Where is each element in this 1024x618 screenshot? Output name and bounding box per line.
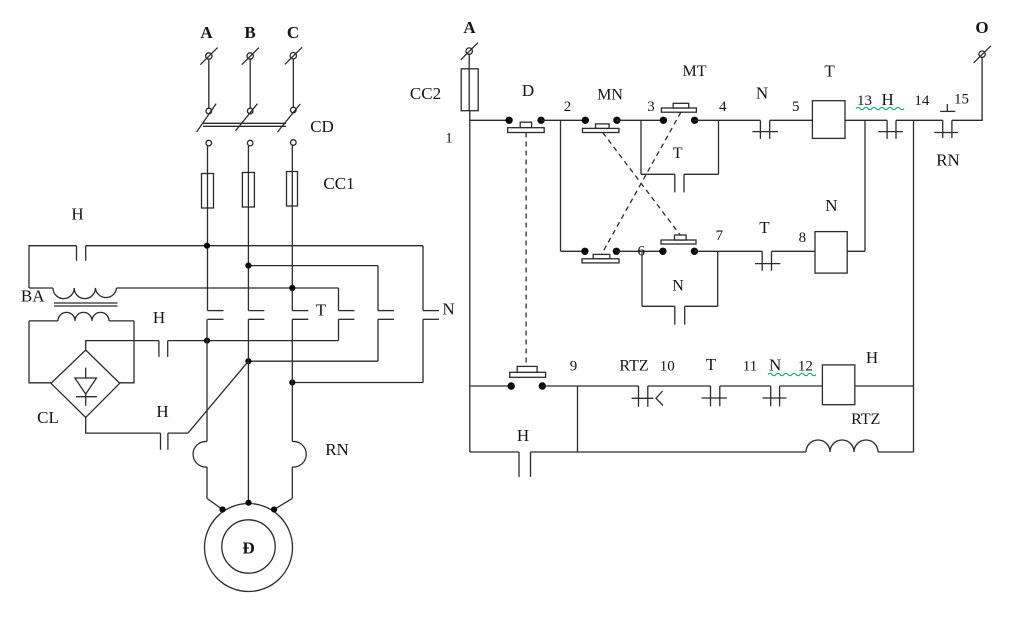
svg-text:13: 13 (857, 93, 872, 109)
contactor coil N (815, 196, 847, 273)
svg-text:MN: MN (597, 87, 623, 104)
node 13 vertical to N coil (864, 120, 866, 251)
green squiggle under 13 H (856, 107, 904, 109)
wire C crossover y=288 from BA primary (117, 287, 339, 289)
node dot C lower (289, 379, 295, 385)
svg-text:3: 3 (647, 99, 655, 115)
svg-text:CC2: CC2 (410, 84, 441, 103)
T self-hold contact box (641, 120, 719, 192)
phase C vertical lower with RN heater (274, 319, 306, 509)
terminal B (242, 23, 259, 65)
NC thermal contact RN (934, 104, 960, 170)
NC contact T (10-11) (702, 355, 727, 406)
fuse CC1 phase C (287, 172, 298, 207)
wire bridge bottom to H contact low y=433.1 (86, 361, 249, 450)
svg-text:CC1: CC1 (323, 174, 354, 193)
svg-text:BA: BA (21, 287, 45, 306)
svg-text:2: 2 (564, 99, 572, 115)
NC time-delay contact RTZ (9-10) (619, 358, 663, 407)
wire H contact to node 14 (896, 119, 943, 121)
contactor coil T (812, 62, 845, 139)
phase A vertical upper (207, 146, 209, 311)
svg-text:7: 7 (716, 228, 724, 244)
svg-text:Đ: Đ (242, 539, 254, 558)
phase B vertical lower (247, 319, 249, 502)
svg-text:15: 15 (954, 92, 969, 108)
row2 wire N coil to node13 vertical (847, 250, 865, 252)
svg-text:A: A (463, 18, 476, 37)
wire top rail y=245.7 with H contact (29, 246, 423, 288)
node 9 vertical (577, 386, 579, 452)
svg-text:D: D (522, 81, 534, 100)
wire A terminal to CD (208, 59, 210, 108)
left rail (469, 111, 471, 452)
terminal A control (461, 18, 478, 60)
svg-text:H: H (882, 90, 894, 109)
fuse CC1 phase B (242, 173, 254, 208)
svg-text:CL: CL (37, 408, 59, 427)
motor terminal dots (219, 500, 277, 513)
svg-text:O: O (975, 18, 988, 37)
svg-text:10: 10 (660, 359, 675, 375)
row3 wire left segment (470, 385, 511, 387)
NC contact N (interlock 4-5) (752, 84, 778, 139)
svg-text:RTZ: RTZ (851, 411, 880, 428)
svg-text:11: 11 (743, 359, 757, 375)
phase B vertical upper (247, 146, 249, 311)
dashed link MT to forward button (602, 112, 681, 254)
wire C terminal to CD (292, 59, 294, 107)
row3 wire N contact to H coil (780, 385, 823, 387)
wire B crossover y=265.6 (248, 265, 378, 267)
pushbutton reverse-release (linked to MT) (581, 248, 620, 263)
node dot C crossover (289, 285, 295, 291)
svg-text:N: N (769, 356, 781, 375)
dashed link MN to reverse button (603, 133, 680, 235)
dashed link D to H button (525, 133, 527, 367)
bridge rectifier CL (37, 350, 120, 427)
svg-text:14: 14 (914, 93, 930, 109)
svg-text:12: 12 (798, 359, 813, 375)
NC contact N (11-12) (763, 356, 787, 407)
svg-text:N: N (442, 300, 454, 319)
wire RN to O terminal (952, 57, 982, 120)
contactor N main contact 2 (378, 266, 394, 362)
svg-text:MT: MT (683, 63, 707, 80)
contactor coil H (822, 348, 878, 405)
node dot B lower (245, 358, 251, 364)
row3 wire H coil to node14 vertical (855, 385, 914, 387)
wire BA secondary right to bridge (120, 321, 134, 383)
svg-text:H: H (71, 205, 83, 224)
wire C return y=382.5 (292, 382, 423, 384)
node 2 vertical (560, 120, 562, 251)
svg-text:T: T (824, 62, 835, 81)
row2 wire button to T contact (694, 250, 762, 252)
svg-text:H: H (517, 426, 529, 445)
contactor N main contact 3 (339, 288, 355, 341)
svg-text:B: B (244, 23, 255, 42)
pushbutton forward-release (linked to MN, inverted) (659, 235, 698, 255)
NC contact H (13-14) (878, 90, 903, 139)
svg-text:8: 8 (799, 230, 807, 246)
phase C vertical upper (291, 145, 293, 310)
row3 wire H button to RTZ contact (542, 385, 638, 387)
row3 wire T to N contact (720, 385, 771, 387)
wire A to fuse CC2 (468, 54, 470, 69)
row1 wire MN to MT (617, 119, 664, 121)
row1 wire MT to node4 (695, 119, 761, 121)
svg-text:H: H (156, 402, 168, 421)
node dot A top rail (204, 243, 210, 249)
fuse CC2 (461, 69, 478, 111)
svg-text:C: C (287, 23, 299, 42)
row1 wire N contact to T coil (770, 119, 813, 121)
svg-text:4: 4 (719, 99, 727, 115)
svg-text:N: N (825, 196, 837, 215)
svg-text:1: 1 (445, 131, 453, 147)
terminal O (974, 18, 991, 63)
motor D (205, 504, 293, 592)
N self-hold contact box (642, 251, 718, 324)
time relay coil RTZ (806, 411, 914, 452)
row1 wire T coil to node14 (845, 119, 887, 121)
wire B terminal to CD (249, 59, 251, 108)
fuse CC1 phase A (202, 174, 214, 209)
wire bridge top to H contact mid y=340.6 (86, 341, 339, 357)
row2 wire to second button (616, 250, 663, 252)
svg-text:RN: RN (325, 440, 349, 459)
terminal A (200, 23, 217, 65)
contactor T main contact phase C (292, 311, 308, 320)
wire BA secondary left to bridge (29, 321, 51, 383)
svg-text:H: H (866, 348, 878, 367)
NC contact T (interlock 7-8) (755, 218, 780, 271)
svg-text:N: N (756, 84, 768, 103)
svg-text:T: T (706, 355, 717, 374)
contactor N main contact 1 (423, 246, 439, 383)
node dot A lower (204, 338, 210, 344)
row1 wire left segment (470, 119, 509, 121)
row2 wire T contact to N coil (772, 250, 816, 252)
pushbutton MT (start reverse, NO, inverted) (660, 63, 707, 124)
knife switch CD (197, 104, 334, 146)
green squiggle under N 12 (768, 373, 816, 375)
pushbutton H (brake, linked to D, inverted) (508, 366, 547, 389)
terminal C (285, 23, 302, 64)
svg-text:A: A (200, 23, 213, 42)
row1 wire D to MN (541, 119, 585, 121)
node 14 vertical (long) (913, 120, 915, 452)
node dot B crossover (245, 263, 251, 269)
pushbutton D (stop, NC) (505, 81, 544, 133)
transformer BA (21, 287, 134, 321)
contactor T main contact phase B (248, 311, 264, 320)
svg-text:9: 9 (570, 359, 578, 375)
svg-text:T: T (759, 218, 770, 237)
svg-text:T: T (316, 301, 327, 320)
svg-text:N: N (672, 278, 684, 295)
svg-text:RN: RN (936, 151, 960, 170)
wire B return y=361.2 (248, 360, 378, 362)
row2 wire left segment (561, 250, 585, 252)
row3 wire RTZ to T contact (648, 385, 711, 387)
svg-text:H: H (153, 308, 165, 327)
pushbutton MN (start forward, NO) (582, 87, 624, 133)
contactor T main contact phase A (208, 311, 224, 320)
svg-text:5: 5 (792, 99, 800, 115)
svg-text:RTZ: RTZ (619, 358, 648, 375)
phase A vertical lower with RN heater (193, 319, 222, 509)
bottom rail with H self-hold contact (470, 426, 806, 477)
svg-text:CD: CD (310, 117, 334, 136)
svg-text:T: T (673, 145, 683, 162)
